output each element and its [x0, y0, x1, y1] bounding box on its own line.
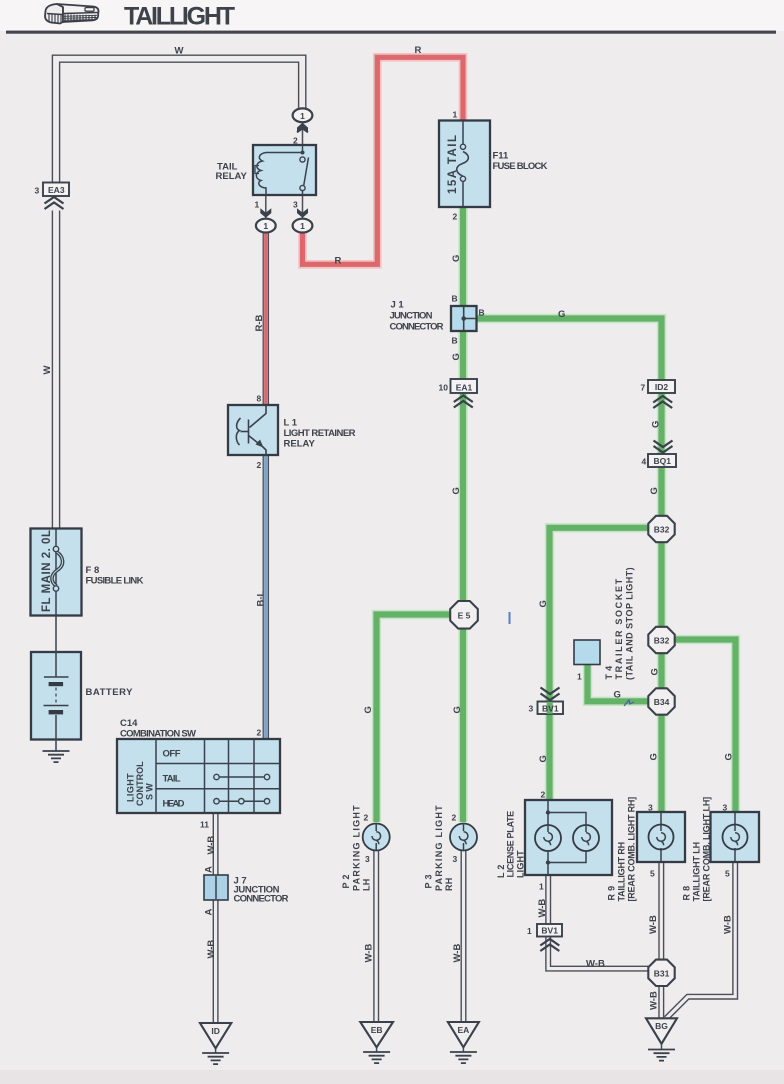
svg-text:1: 1 [255, 200, 260, 210]
svg-text:2: 2 [364, 813, 369, 823]
svg-text:R 8: R 8 [682, 886, 692, 901]
svg-text:1: 1 [527, 926, 532, 936]
svg-text:P 3: P 3 [424, 874, 434, 888]
svg-text:B: B [452, 294, 458, 304]
svg-text:TAILLIGHT LH: TAILLIGHT LH [692, 842, 702, 902]
svg-text:LIGHT RETAINER: LIGHT RETAINER [284, 428, 356, 439]
svg-text:B: B [479, 308, 485, 318]
svg-text:JUNCTION: JUNCTION [390, 311, 433, 322]
svg-text:A: A [204, 909, 215, 916]
svg-text:L 1: L 1 [284, 418, 298, 429]
svg-text:CONNECTOR: CONNECTOR [390, 322, 444, 333]
svg-text:2: 2 [452, 813, 457, 823]
svg-text:G: G [649, 668, 660, 675]
svg-text:R: R [415, 45, 422, 56]
svg-text:RH: RH [444, 877, 454, 891]
svg-text:W-B: W-B [648, 915, 659, 934]
svg-text:LH: LH [362, 878, 372, 891]
svg-text:RELAY: RELAY [216, 171, 248, 182]
svg-text:G: G [649, 753, 660, 760]
svg-text:2: 2 [257, 460, 262, 470]
svg-text:J 1: J 1 [391, 300, 405, 311]
svg-text:ID: ID [211, 1026, 220, 1036]
svg-text:G: G [650, 421, 661, 428]
svg-text:R-B: R-B [254, 314, 265, 331]
svg-text:EA: EA [457, 1025, 469, 1035]
svg-text:TAILLIGHT: TAILLIGHT [124, 3, 235, 31]
svg-text:G: G [558, 309, 565, 320]
svg-text:2: 2 [257, 728, 262, 738]
svg-text:G: G [452, 706, 463, 713]
svg-text:G: G [451, 255, 462, 262]
svg-text:1: 1 [453, 110, 458, 120]
svg-text:RELAY: RELAY [284, 439, 316, 450]
svg-text:F 8: F 8 [86, 565, 100, 576]
svg-text:FUSIBLE LINK: FUSIBLE LINK [86, 576, 144, 587]
svg-text:1: 1 [539, 882, 544, 892]
svg-text:EA1: EA1 [456, 383, 473, 393]
svg-text:R 9: R 9 [607, 886, 617, 901]
svg-text:F11: F11 [493, 151, 510, 162]
svg-text:SW: SW [145, 783, 155, 800]
svg-text:W-B: W-B [723, 915, 734, 934]
svg-text:B32: B32 [654, 636, 670, 646]
svg-text:W-B: W-B [586, 959, 605, 970]
svg-text:8: 8 [257, 394, 262, 404]
svg-text:3: 3 [365, 854, 370, 864]
svg-text:PARKING LIGHT: PARKING LIGHT [352, 805, 362, 891]
svg-text:CONNECTOR: CONNECTOR [234, 894, 289, 905]
svg-text:[REAR COMB. LIGHT RH]: [REAR COMB. LIGHT RH] [627, 797, 637, 902]
svg-text:W-B: W-B [364, 944, 375, 963]
svg-text:1: 1 [300, 221, 305, 231]
svg-text:P 2: P 2 [341, 874, 351, 888]
svg-text:G: G [363, 706, 374, 713]
svg-text:BQ1: BQ1 [654, 456, 672, 466]
svg-text:B32: B32 [654, 525, 670, 535]
svg-text:3: 3 [648, 803, 653, 813]
svg-text:3: 3 [35, 186, 40, 196]
svg-text:G: G [724, 753, 735, 760]
svg-text:G: G [451, 487, 462, 494]
svg-text:BV1: BV1 [541, 926, 558, 936]
svg-text:COMBINATION SW: COMBINATION SW [120, 729, 196, 740]
svg-text:W: W [42, 366, 53, 375]
svg-text:W-B: W-B [206, 836, 217, 855]
svg-text:3: 3 [723, 803, 728, 813]
svg-text:G: G [538, 755, 549, 762]
svg-text:PARKING LIGHT: PARKING LIGHT [434, 805, 444, 891]
svg-text:FUSE BLOCK: FUSE BLOCK [493, 161, 548, 172]
svg-text:1: 1 [263, 221, 268, 231]
svg-text:T 4: T 4 [604, 666, 614, 680]
svg-text:11: 11 [200, 820, 209, 830]
svg-text:3: 3 [529, 704, 534, 714]
svg-text:2: 2 [453, 212, 458, 222]
svg-text:B: B [452, 336, 458, 346]
svg-text:A: A [204, 866, 215, 873]
svg-text:HEAD: HEAD [163, 799, 185, 810]
svg-text:W-B: W-B [537, 899, 548, 918]
svg-text:TRAILER SOCKET: TRAILER SOCKET [614, 578, 624, 679]
svg-text:ID2: ID2 [655, 382, 669, 392]
svg-text:W-B: W-B [452, 944, 463, 963]
svg-text:OFF: OFF [163, 749, 181, 760]
svg-text:CONTROL: CONTROL [135, 761, 145, 806]
svg-text:EA3: EA3 [48, 185, 65, 195]
svg-text:LIGHT: LIGHT [516, 850, 526, 878]
svg-text:1: 1 [300, 111, 305, 121]
svg-text:B31: B31 [654, 968, 670, 978]
svg-text:5: 5 [725, 869, 730, 879]
svg-text:(TAIL AND STOP LIGHT): (TAIL AND STOP LIGHT) [625, 567, 635, 680]
svg-text:LIGHT: LIGHT [126, 773, 136, 802]
svg-text:W-B: W-B [649, 991, 660, 1010]
svg-text:5: 5 [650, 869, 655, 879]
svg-text:[REAR COMB. LIGHT LH]: [REAR COMB. LIGHT LH] [702, 797, 712, 902]
svg-text:L 2: L 2 [496, 864, 506, 878]
svg-text:G: G [538, 600, 549, 607]
svg-text:W-B: W-B [206, 940, 217, 959]
svg-text:3: 3 [453, 854, 458, 864]
svg-text:R: R [335, 256, 342, 267]
svg-text:B34: B34 [654, 697, 670, 707]
svg-text:W: W [175, 46, 184, 57]
svg-text:TAILLIGHT RH: TAILLIGHT RH [617, 842, 627, 902]
svg-text:TAIL: TAIL [163, 774, 181, 785]
svg-text:BG: BG [655, 1021, 668, 1031]
svg-text:FL MAIN 2. 0L: FL MAIN 2. 0L [41, 530, 53, 612]
svg-text:1: 1 [577, 672, 582, 682]
svg-text:G: G [451, 353, 462, 360]
svg-text:B-L: B-L [256, 590, 267, 606]
svg-text:BATTERY: BATTERY [86, 687, 134, 698]
svg-text:10: 10 [439, 383, 449, 393]
svg-text:7: 7 [641, 383, 646, 393]
svg-text:3: 3 [293, 200, 298, 210]
svg-text:EB: EB [371, 1025, 383, 1035]
svg-text:E 5: E 5 [458, 610, 471, 620]
svg-text:2: 2 [293, 136, 298, 146]
svg-text:G: G [649, 487, 660, 494]
svg-text:4: 4 [642, 457, 647, 467]
svg-text:C14: C14 [120, 718, 138, 729]
svg-text:BV1: BV1 [542, 704, 559, 714]
svg-text:2: 2 [541, 790, 546, 800]
svg-text:15A TAIL: 15A TAIL [447, 135, 459, 194]
svg-text:LICENSE PLATE: LICENSE PLATE [506, 811, 516, 878]
svg-text:G: G [614, 690, 621, 701]
